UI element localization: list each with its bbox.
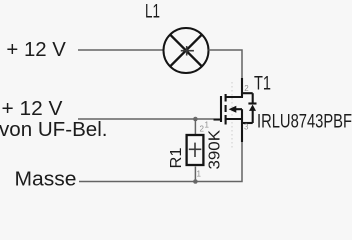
body to source line bbox=[241, 109, 243, 119]
svg-text:+ 12 V: + 12 V bbox=[2, 98, 64, 120]
body diode cathode bar bbox=[248, 102, 256, 104]
body diode cathode lead bbox=[252, 110, 254, 123]
svg-text:2: 2 bbox=[244, 84, 249, 93]
dashed origin line of T1 bbox=[231, 82, 233, 149]
svg-text:+ 12 V: + 12 V bbox=[6, 39, 66, 61]
origin cross of R1 bbox=[189, 143, 202, 157]
diode drain link bbox=[242, 92, 253, 94]
lamp L1 bbox=[164, 28, 209, 73]
svg-text:T1: T1 bbox=[254, 72, 271, 94]
source pin bbox=[241, 119, 243, 142]
svg-text:Masse: Masse bbox=[15, 169, 77, 191]
gate wire bbox=[78, 118, 214, 120]
transistor T1 bbox=[214, 78, 257, 142]
channel bottom dash bbox=[225, 115, 227, 125]
body diode triangle bbox=[249, 105, 256, 111]
channel middle dash bbox=[225, 105, 227, 112]
source bar bbox=[225, 118, 243, 120]
svg-text:IRLU8743PBF: IRLU8743PBF bbox=[257, 111, 352, 133]
svg-text:3: 3 bbox=[244, 123, 249, 132]
body diode anode lead bbox=[252, 93, 254, 103]
gate bar bbox=[220, 96, 222, 122]
svg-text:390K: 390K bbox=[207, 130, 224, 170]
wire +12V to lamp bbox=[78, 49, 164, 51]
body arrow head bbox=[229, 106, 237, 113]
junction R1/ground bbox=[193, 179, 198, 184]
diode source link bbox=[242, 122, 253, 124]
svg-text:von UF-Bel.: von UF-Bel. bbox=[0, 119, 108, 141]
drain pin bbox=[241, 78, 243, 97]
body arrow line bbox=[236, 108, 242, 110]
gate lead bbox=[214, 118, 222, 120]
wire lamp to drain corner bbox=[209, 50, 243, 78]
ground wire Masse to source bbox=[79, 142, 242, 182]
svg-text:2: 2 bbox=[200, 125, 205, 134]
channel top dash bbox=[225, 94, 227, 102]
svg-text:R1: R1 bbox=[168, 147, 185, 168]
wire R1 to ground net bbox=[194, 167, 196, 182]
svg-text:1: 1 bbox=[205, 121, 210, 130]
svg-text:1: 1 bbox=[197, 170, 202, 179]
resistor R1 bbox=[187, 135, 204, 165]
wire junction to R1 bbox=[194, 119, 196, 135]
origin cross of lamp bbox=[181, 46, 194, 56]
svg-text:L1: L1 bbox=[145, 0, 160, 22]
junction gate/R1 bbox=[193, 117, 198, 122]
drain bar bbox=[225, 96, 243, 98]
